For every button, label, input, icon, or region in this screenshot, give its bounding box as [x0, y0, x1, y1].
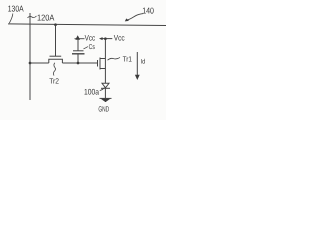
power Vcc (right, at Tr1 drain)	[99, 34, 125, 43]
svg-text:140: 140	[142, 6, 154, 16]
node: Vcc junction dot	[104, 37, 107, 40]
svg-text:Vcc: Vcc	[85, 33, 96, 42]
capacitor Cs	[72, 51, 85, 54]
ground GND	[98, 98, 111, 113]
node: data line junction	[29, 62, 32, 65]
current arrow Id	[135, 52, 140, 80]
svg-text:130A: 130A	[8, 4, 24, 14]
transistor Tr2 (switching TFT): channel	[49, 59, 63, 63]
wire: Vcc to Cs top plate	[77, 40, 79, 51]
transistor Tr2 (switching TFT): gate bar	[50, 55, 62, 57]
label Tr2	[49, 63, 59, 86]
wire: Tr2 drain to Tr1 gate	[62, 62, 97, 64]
svg-text:Cs: Cs	[89, 44, 96, 51]
wire: data line (vertical bus)	[29, 13, 31, 100]
wire: Cs bottom plate to storage node	[77, 54, 79, 63]
label Tr1	[108, 54, 132, 63]
wire: Tr1 source down to OLED anode	[104, 70, 106, 83]
power Vcc (left, above Cs)	[75, 33, 96, 42]
transistor Tr1 (drive TFT): gate bar	[97, 60, 99, 67]
svg-text:120A: 120A	[37, 13, 55, 23]
node: scan line / gate stub junction	[54, 23, 57, 26]
label 140 (figure leader arrow)	[125, 6, 154, 22]
svg-text:Tr1: Tr1	[123, 54, 132, 63]
wire: data line to Tr2 source	[30, 62, 49, 64]
label 130A	[8, 4, 24, 24]
label Cs	[84, 44, 96, 51]
svg-text:Vcc: Vcc	[114, 34, 125, 43]
label 120A	[28, 13, 55, 23]
svg-text:Tr2: Tr2	[49, 76, 59, 85]
label 100a	[84, 87, 105, 96]
wire: gate stub down to Tr2 gate	[55, 25, 57, 56]
wire: scan line (horizontal bus)	[8, 24, 166, 26]
svg-text:100a: 100a	[84, 87, 99, 96]
wire: Tr1 drain up to Vcc	[104, 39, 106, 58]
transistor Tr1 (drive TFT): channel bar	[99, 58, 101, 70]
transistor Tr1 (drive TFT): drain/source contacts	[100, 58, 105, 71]
svg-text:Id: Id	[141, 58, 146, 65]
node: storage node junction	[77, 62, 80, 65]
wire: OLED cathode to ground	[104, 88, 106, 98]
svg-text:GND: GND	[98, 104, 109, 113]
diode: OLED element 100a	[101, 83, 110, 88]
